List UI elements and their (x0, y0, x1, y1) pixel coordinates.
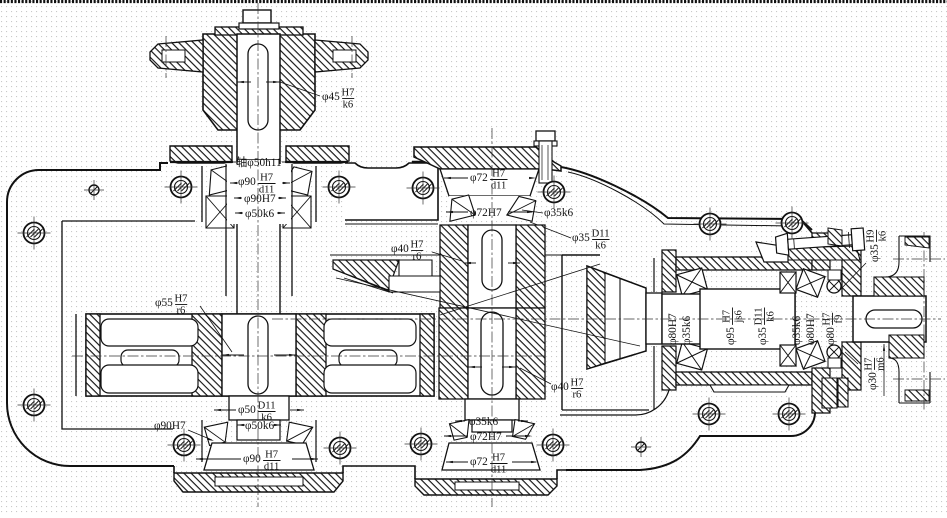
output shaft centerline (272, 318, 941, 320)
lower pinion shaft white (468, 308, 516, 399)
intermediate bottom cap (415, 479, 557, 495)
sleeve bottom lip (710, 385, 789, 392)
right coupling hub hatched bottom (889, 335, 924, 358)
coupling right wing (315, 40, 368, 72)
svg-text:φ35k6: φ35k6 (544, 207, 573, 219)
svg-text:φ90: φ90 (243, 453, 261, 465)
phantom top corner hatch (905, 237, 929, 248)
big gear horizontal centerline (72, 355, 545, 357)
housing foot bottom right (822, 378, 837, 408)
big gear right rim hatched (420, 314, 434, 396)
svg-text:φ72H7: φ72H7 (470, 431, 502, 443)
intermediate bottom bearing rollers (449, 420, 472, 441)
right coupling flange bottom (889, 358, 930, 403)
svg-text:H7: H7 (410, 240, 423, 251)
svg-text:φ72: φ72 (470, 172, 488, 184)
housing lug at bolt head (756, 242, 788, 262)
phi45 dim arrows (237, 81, 251, 83)
svg-text:H7: H7 (864, 358, 875, 371)
input bottom cap (174, 473, 343, 492)
bevel pinion shaft white (468, 225, 516, 308)
svg-text:φ45: φ45 (322, 91, 340, 103)
bolt bottom flange 4 (543, 435, 564, 456)
input shaft to gear (236, 230, 238, 314)
input shaft in coupling (237, 34, 280, 160)
label phi35 D11/k6 rotated (754, 307, 777, 345)
coupling bottom corner hatch (905, 390, 929, 401)
bevel wheel tooth lines (605, 273, 646, 288)
label phi80H7 rotated left pair (667, 313, 679, 345)
bolt bottom right 1 (699, 404, 720, 425)
bolt left flange bottom (24, 395, 45, 416)
bevel pinion arm (333, 260, 399, 290)
vertical bolt on cap (536, 131, 555, 141)
page top edge dotted border (0, 0, 947, 3)
bearing outer X boxes right (780, 272, 796, 293)
svg-text:φ35: φ35 (869, 244, 881, 262)
output end cap (842, 250, 861, 296)
bolt top right flange 1 (700, 214, 721, 235)
svg-text:r6: r6 (177, 306, 186, 317)
svg-text:φ50k6: φ50k6 (245, 420, 274, 432)
label phi35 H9/k6 rotated (866, 230, 889, 262)
coupling left wing (150, 40, 203, 72)
lower pinion gear right hatched (516, 308, 545, 399)
bolt left flange top (24, 223, 45, 244)
intermediate keyway lower (481, 312, 503, 395)
intermediate bearing cap (414, 147, 561, 171)
svg-text:H7: H7 (174, 294, 187, 305)
wing centerline right (351, 36, 353, 78)
pitch cone line b (440, 264, 600, 315)
bevel pinion underside lines (333, 269, 393, 293)
right coupling hub hatched top (874, 277, 924, 296)
svg-text:φ35k6: φ35k6 (791, 316, 803, 345)
bolt circle right of cap (544, 182, 565, 203)
bearing cap right block (286, 146, 349, 163)
coupling bolt head (243, 10, 271, 23)
horizontal bolt top right (775, 228, 864, 256)
big gear keyway (248, 316, 268, 394)
bevel wheel (587, 266, 646, 369)
output bearing sleeve flange left (662, 250, 676, 292)
svg-text:φ72: φ72 (470, 456, 488, 468)
svg-text:φ95: φ95 (725, 327, 737, 345)
input shaft keyway (248, 44, 268, 130)
white bore column top-left (227, 164, 291, 224)
svg-text:H7: H7 (570, 378, 583, 389)
label phi80 H7/f9 rotated (822, 313, 845, 345)
intermediate shaft centerline (491, 128, 493, 507)
housing inner line bottom right (560, 386, 669, 415)
phi40 lower dim arrows (468, 366, 482, 368)
housing top between bearing bosses (345, 163, 438, 220)
coupling top plate (215, 27, 303, 35)
input top bearing right roller (281, 165, 314, 195)
svg-text:φ80H7: φ80H7 (667, 313, 679, 345)
bolt bottom flange 2 (330, 438, 351, 459)
svg-text:φ40: φ40 (551, 381, 569, 393)
big gear outline (86, 314, 434, 396)
phi30 dim extension line (883, 344, 885, 396)
svg-text:H9: H9 (866, 230, 877, 243)
svg-text:H7: H7 (492, 453, 505, 464)
intermediate keyway upper (482, 230, 502, 290)
svg-text:φ80H7: φ80H7 (805, 313, 817, 345)
label phi30 H7/m6 rotated (864, 357, 887, 390)
svg-text:φ90H7: φ90H7 (244, 193, 276, 205)
svg-text:k6: k6 (343, 100, 354, 111)
bevel wheel hub (646, 293, 662, 344)
svg-text:φ80: φ80 (825, 327, 837, 345)
big gear hub (222, 314, 296, 396)
housing bore wall right of wheel (653, 258, 655, 292)
coupling centerlines (893, 258, 945, 260)
svg-text:r6: r6 (573, 390, 582, 401)
svg-text:d11: d11 (491, 181, 507, 192)
svg-text:φ90H7: φ90H7 (154, 420, 186, 432)
bolt left of input boss (171, 177, 192, 198)
housing outer outline left (7, 163, 174, 466)
svg-text:d11: d11 (491, 465, 507, 476)
svg-text:H7: H7 (265, 450, 278, 461)
input lower journal (229, 396, 289, 420)
label phi80H7 rotated right pair (805, 313, 817, 345)
bolt on flat between bosses (413, 178, 434, 199)
svg-text:轴φ50h11: 轴φ50h11 (236, 155, 282, 169)
housing bottom right outline (566, 386, 822, 470)
bevel pinion hub right hatched (516, 225, 545, 308)
output bearing sleeve bottom band (676, 372, 812, 385)
input bottom bearing rollers (204, 422, 231, 446)
svg-text:k6: k6 (878, 231, 889, 242)
svg-text:φ72H7: φ72H7 (470, 207, 502, 219)
lower pinion gear left hatched (439, 308, 468, 399)
housing inner wall at bevel chamber (561, 255, 563, 410)
bracket hatch upper (828, 228, 842, 246)
input top bearing left roller (204, 165, 237, 195)
output shaft phi95 section (662, 294, 795, 344)
small hole top left (89, 185, 99, 195)
input shaft coupling hub (203, 34, 315, 130)
bearing outer X boxes bottom (201, 420, 203, 462)
svg-text:φ50: φ50 (238, 404, 256, 416)
output right bearing rollers (796, 269, 825, 298)
output ball bearing (827, 279, 841, 293)
svg-text:φ55: φ55 (155, 297, 173, 309)
bolt top right flange 2 (782, 213, 803, 234)
bevel pinion hub left hatched (440, 225, 468, 308)
svg-text:φ30: φ30 (867, 372, 879, 390)
svg-text:D11: D11 (258, 401, 276, 412)
cap gasket lines (170, 161, 232, 163)
housing bore sides below boss (225, 230, 227, 296)
output bearing sleeve top band (676, 257, 812, 270)
label phi35k6 rotated right pair (791, 316, 803, 345)
svg-text:H7: H7 (341, 88, 354, 99)
housing inner wall left (62, 221, 195, 429)
bolt bottom flange 1 (174, 435, 195, 456)
svg-text:k6: k6 (766, 311, 777, 322)
svg-text:φ35k6: φ35k6 (469, 416, 498, 428)
wing centerline left (165, 36, 167, 78)
svg-text:H7: H7 (492, 169, 505, 180)
intermediate top bearing rollers (445, 195, 475, 222)
big gear right inner hatched strip (296, 314, 326, 396)
right coupling flange top (874, 236, 930, 277)
housing top right curve to output area (561, 167, 812, 230)
input shaft centerline (257, 3, 259, 507)
input shaft through bearing (237, 160, 280, 230)
svg-text:φ40: φ40 (391, 243, 409, 255)
cap cavity phi72 (449, 196, 530, 221)
bearing cap left block (170, 146, 232, 163)
phi55 dim arrows (222, 354, 244, 356)
small hole bottom right (636, 442, 646, 452)
output keyway (866, 310, 922, 328)
svg-text:js6: js6 (734, 310, 745, 323)
intermediate lower journal (465, 399, 519, 420)
big gear left inner hatched strip (192, 314, 222, 396)
label phi95 H7/js6 rotated (722, 307, 745, 345)
bolt bottom right 2 (779, 404, 800, 425)
svg-text:d11: d11 (264, 462, 280, 473)
svg-text:φ35: φ35 (757, 327, 769, 345)
svg-text:H7: H7 (260, 173, 273, 184)
input bottom cavity (204, 443, 314, 470)
big gear left rim hatched (86, 314, 100, 396)
bolt bottom flange 3 (411, 434, 432, 455)
output shaft extension (853, 296, 926, 342)
svg-text:D11: D11 (754, 307, 765, 325)
big gear left web recesses (101, 319, 198, 346)
sleeve mounting flange tall (812, 233, 830, 270)
bolt right of input boss (329, 177, 350, 198)
svg-text:φ35: φ35 (572, 232, 590, 244)
intermediate bottom cavity (442, 443, 540, 470)
svg-text:φ35k6: φ35k6 (681, 316, 693, 345)
big gear right web recesses (324, 319, 416, 346)
svg-text:m6: m6 (876, 357, 887, 371)
svg-text:k6: k6 (595, 241, 606, 252)
bracket hatch under bolt (788, 246, 860, 260)
label phi35k6 rotated left pair (681, 316, 693, 345)
svg-text:φ90: φ90 (238, 176, 256, 188)
output left bearing rollers (677, 268, 708, 296)
svg-text:φ50k6: φ50k6 (245, 208, 274, 220)
svg-text:H7: H7 (722, 310, 733, 323)
svg-text:D11: D11 (592, 229, 610, 240)
pitch cone line a (336, 278, 640, 346)
housing bottom edge left (174, 466, 566, 479)
phi40 upper dim arrows (464, 262, 476, 264)
